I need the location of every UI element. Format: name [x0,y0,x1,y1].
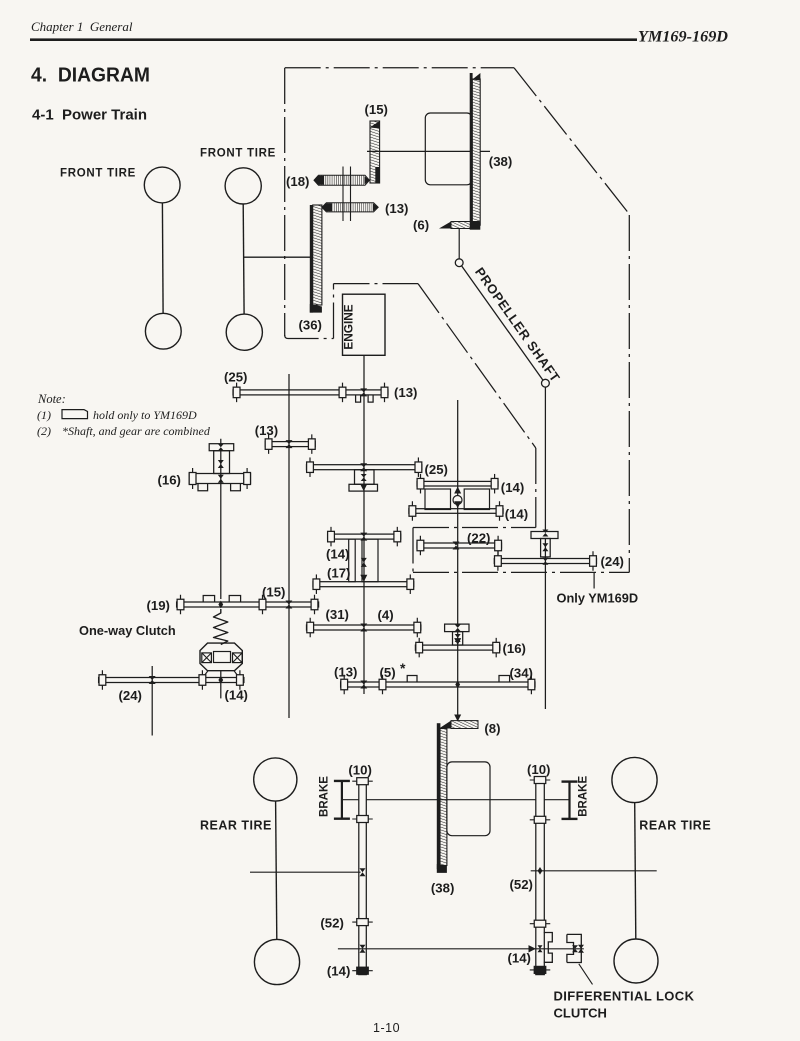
svg-text:REAR TIRE: REAR TIRE [200,819,272,833]
svg-text:(14): (14) [225,688,248,703]
svg-text:(6): (6) [413,218,429,233]
svg-text:(17): (17) [327,566,350,581]
svg-text:(13): (13) [394,385,417,400]
svg-text:FRONT TIRE: FRONT TIRE [60,168,136,180]
svg-text:(14): (14) [326,547,349,562]
svg-text:(5): (5) [380,665,396,680]
svg-text:Note:: Note: [37,392,66,406]
svg-text:Chapter 1 General: Chapter 1 General [31,19,133,34]
svg-text:CLUTCH: CLUTCH [554,1006,607,1021]
svg-text:(25): (25) [425,462,448,477]
svg-text:(10): (10) [348,763,371,778]
svg-text:(13): (13) [255,423,278,438]
svg-text:*Shaft, and gear are combined: *Shaft, and gear are combined [62,424,211,438]
svg-text:(31): (31) [326,607,349,622]
svg-text:4-1 Power Train: 4-1 Power Train [32,108,147,124]
svg-text:4. DIAGRAM: 4. DIAGRAM [31,65,150,87]
svg-text:(4): (4) [378,607,394,622]
svg-text:(25): (25) [224,370,247,385]
svg-text:ENGINE: ENGINE [342,304,356,349]
svg-text:(15): (15) [262,584,285,599]
svg-text:(52): (52) [320,916,343,931]
svg-text:(15): (15) [365,102,388,117]
svg-text:REAR TIRE: REAR TIRE [639,819,711,833]
svg-text:(16): (16) [503,641,526,656]
svg-text:(36): (36) [299,318,322,333]
svg-text:(52): (52) [510,877,533,892]
svg-text:Only YM169D: Only YM169D [557,591,639,606]
svg-text:One-way Clutch: One-way Clutch [79,623,176,638]
svg-text:(14): (14) [501,480,524,495]
svg-text:(13): (13) [385,201,408,216]
svg-text:PROPELLER SHAFT: PROPELLER SHAFT [472,265,563,386]
svg-text:(16): (16) [158,473,181,488]
svg-text:hold only to YM169D: hold only to YM169D [93,408,197,422]
svg-text:(34): (34) [510,666,533,681]
svg-text:(1): (1) [37,408,51,422]
svg-text:(38): (38) [431,881,454,896]
svg-text:(22): (22) [467,531,490,546]
svg-text:(18): (18) [286,174,309,189]
svg-text:(8): (8) [484,721,500,736]
svg-text:(38): (38) [489,154,512,169]
svg-text:DIFFERENTIAL LOCK: DIFFERENTIAL LOCK [554,989,695,1004]
svg-text:(19): (19) [147,598,170,613]
svg-text:BRAKE: BRAKE [578,776,590,817]
svg-text:FRONT TIRE: FRONT TIRE [200,148,276,160]
svg-text:BRAKE: BRAKE [319,776,331,817]
svg-text:(14): (14) [327,964,350,979]
svg-text:(13): (13) [334,665,357,680]
svg-text:(10): (10) [527,762,550,777]
svg-text:(24): (24) [119,688,142,703]
svg-text:*: * [400,660,406,676]
svg-text:1-10: 1-10 [373,1021,400,1035]
svg-text:(2): (2) [37,424,51,438]
svg-text:(14): (14) [505,506,528,521]
svg-text:(14): (14) [508,951,531,966]
svg-text:YM169-169D: YM169-169D [638,29,728,46]
svg-text:(24): (24) [601,554,624,569]
